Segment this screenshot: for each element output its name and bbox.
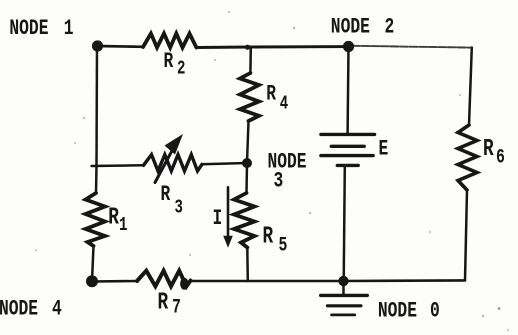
junction node 0: [338, 276, 348, 286]
svg-text:3: 3: [274, 168, 284, 193]
junction dot at R4 branch on top wire: [245, 45, 250, 50]
resistor R3 (variable): [144, 155, 203, 171]
wire left vertical lower (R1 to node 4): [92, 246, 94, 282]
resistor R4: [240, 73, 259, 121]
label NODE 0: [378, 298, 440, 323]
wire R4 branch lower (R4 to node 3): [247, 121, 249, 163]
ground symbol (NODE 0): [321, 295, 368, 315]
current arrow I head: [223, 236, 233, 248]
label NODE 2: [331, 14, 394, 39]
label R2: [164, 49, 186, 81]
svg-text:I: I: [213, 206, 223, 231]
resistor R5: [234, 193, 255, 248]
label R1: [108, 204, 127, 237]
wire middle-right segment (R3 to node 3): [202, 163, 247, 164]
current arrow I line: [227, 186, 230, 238]
junction node 4: [86, 275, 98, 287]
svg-text:NODE: NODE: [378, 298, 417, 323]
label R6: [483, 136, 505, 170]
svg-text:R: R: [164, 49, 174, 74]
junction node 2: [343, 41, 354, 52]
wire node 3 to R5: [245, 163, 248, 193]
svg-text:7: 7: [172, 297, 181, 320]
wire left vertical upper (node 1 to middle wire): [96, 46, 97, 193]
svg-text:R: R: [161, 182, 171, 207]
label R4: [266, 82, 288, 116]
label R7: [158, 289, 181, 319]
wire bottom-left segment (node 4 to R7): [92, 280, 137, 283]
wire bottom segment (R7 to bottom-right corner): [191, 279, 466, 282]
label NODE 3: [268, 149, 307, 193]
wire right vertical lower (R6 to bottom corner): [465, 190, 467, 280]
battery E plates: [321, 134, 375, 165]
svg-text:4: 4: [280, 94, 288, 116]
svg-text:NODE: NODE: [0, 296, 38, 321]
svg-text:R: R: [266, 82, 276, 107]
svg-text:R: R: [263, 223, 274, 250]
wire top-left segment (node 1 to R2): [97, 45, 143, 48]
resistor R7: [137, 271, 191, 287]
svg-text:6: 6: [496, 147, 505, 170]
svg-text:3: 3: [175, 198, 183, 220]
svg-text:1: 1: [119, 215, 127, 237]
R3 wiper arrow: [155, 146, 175, 183]
label R5: [263, 223, 288, 257]
svg-text:4: 4: [52, 296, 62, 321]
svg-text:R: R: [158, 289, 169, 316]
svg-text:R: R: [483, 136, 494, 163]
wire R4 branch upper (top wire to R4): [249, 48, 252, 74]
wire right vertical upper (corner to R6): [469, 48, 472, 125]
wire R5 to bottom wire: [246, 248, 249, 282]
resistor R1: [86, 193, 106, 246]
ground stub wire: [342, 281, 345, 294]
junction node 3: [242, 158, 252, 168]
svg-text:0: 0: [430, 298, 440, 323]
svg-text:2: 2: [385, 14, 395, 39]
svg-text:NODE: NODE: [331, 14, 370, 39]
wire battery branch upper (node 2 to E): [346, 47, 349, 133]
wire middle-left segment (left wire to R3): [92, 164, 144, 167]
wire top-right segment (node 2 to corner): [352, 46, 472, 48]
R3 arrowhead: [165, 134, 184, 155]
svg-text:E: E: [379, 136, 389, 161]
label NODE 4: [0, 296, 62, 321]
resistor R2: [143, 34, 196, 48]
svg-text:5: 5: [279, 235, 288, 258]
wire top-middle segment (R2 to node 2): [196, 45, 352, 49]
label R3: [161, 182, 183, 220]
svg-text:2: 2: [177, 59, 185, 81]
wire battery branch lower (E to node 0): [344, 167, 345, 281]
junction node 1: [92, 40, 103, 51]
ink blob at R7 right end: [180, 278, 188, 290]
svg-text:R: R: [108, 204, 119, 231]
label NODE 1: [9, 16, 73, 41]
svg-text:NODE: NODE: [9, 16, 48, 41]
svg-text:1: 1: [64, 16, 74, 41]
resistor R6: [458, 125, 477, 190]
